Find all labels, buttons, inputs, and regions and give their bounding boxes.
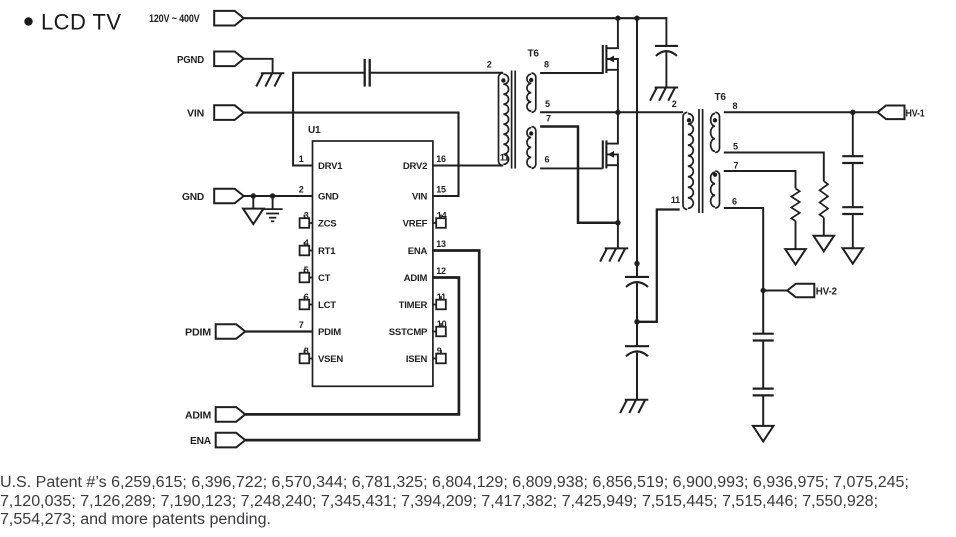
wire top rail bbox=[244, 17, 667, 19]
capacitor HV1 filter upper bbox=[842, 155, 863, 157]
wire GND to pin2 bbox=[244, 195, 313, 197]
wire ADIM loop to pin12 bbox=[245, 278, 459, 415]
svg-text:DRV1: DRV1 bbox=[318, 161, 343, 172]
svg-text:6: 6 bbox=[732, 197, 737, 207]
wire to signal ground bbox=[252, 196, 254, 209]
svg-text:11: 11 bbox=[500, 153, 509, 163]
svg-text:TIMER: TIMER bbox=[399, 300, 428, 311]
connector J6 ADIM bbox=[216, 407, 246, 422]
svg-text:5: 5 bbox=[733, 142, 738, 152]
patent notice text bbox=[0, 473, 956, 529]
svg-text:VSEN: VSEN bbox=[318, 354, 343, 365]
svg-text:PDIM: PDIM bbox=[185, 327, 211, 339]
connector J7 ENA bbox=[216, 433, 246, 448]
svg-text:13: 13 bbox=[436, 239, 446, 249]
wire pin16 DRV2 to T6a pin11 bbox=[433, 165, 503, 167]
wire T6b pin8 to HV-1 bbox=[724, 111, 878, 113]
svg-text:2: 2 bbox=[672, 99, 677, 109]
capacitor HV2 upper bbox=[753, 333, 774, 335]
node rail-drain bbox=[615, 16, 620, 21]
wire ENA loop to pin13 bbox=[245, 251, 479, 441]
wire cap to T6a pin2 bbox=[370, 72, 503, 74]
node T6a sec2 dot bbox=[529, 131, 533, 135]
resistor R-pin7 bbox=[791, 189, 799, 222]
svg-text:1: 1 bbox=[299, 154, 304, 164]
node T6a sec1 dot bbox=[529, 78, 533, 82]
ground cap branch chassis bbox=[625, 399, 649, 401]
svg-text:7: 7 bbox=[546, 114, 551, 124]
node HV-2 tap bbox=[761, 288, 766, 293]
ground R-pin5 triangle bbox=[814, 236, 835, 252]
svg-text:ISEN: ISEN bbox=[406, 354, 428, 365]
ground HV2 triangle bbox=[753, 426, 774, 442]
node cap branch bbox=[634, 261, 639, 266]
wire HV1 filter drop bbox=[852, 112, 854, 156]
node T6b sec2 dot bbox=[713, 173, 717, 177]
wire snubber to ground bbox=[665, 52, 667, 87]
svg-text:4: 4 bbox=[304, 238, 309, 248]
wire cap to ground bbox=[636, 353, 638, 400]
svg-text:GND: GND bbox=[318, 192, 339, 203]
capacitor resonant lower bbox=[625, 345, 649, 347]
wire T6b pin7 branch bbox=[724, 171, 796, 189]
transformer T6a sec upper bbox=[532, 73, 536, 112]
svg-text:8: 8 bbox=[544, 60, 549, 70]
svg-text:PDIM: PDIM bbox=[318, 327, 341, 338]
wire midpoint rail bbox=[540, 111, 683, 113]
node midpoint bbox=[615, 110, 620, 115]
wire T6a pin8 to Q1 gate bbox=[540, 72, 603, 74]
svg-text:HV-2: HV-2 bbox=[816, 287, 838, 298]
svg-text:15: 15 bbox=[436, 185, 446, 195]
svg-text:ZCS: ZCS bbox=[318, 219, 336, 230]
wire PGND to ground bbox=[244, 59, 273, 73]
wire T6b pin11 to cap node bbox=[637, 210, 680, 322]
ground Q2 source chassis bbox=[605, 247, 629, 249]
resistor R-pin5 bbox=[820, 181, 828, 217]
wire R-pin5 to ground bbox=[823, 218, 825, 236]
transistor Q2 lower NMOS bbox=[602, 140, 604, 168]
connector HV-1 bbox=[878, 106, 905, 120]
transformer T6a sec lower bbox=[532, 127, 536, 169]
wire T6a pin7 to Q2 source bbox=[540, 127, 618, 223]
wire pin1 DRV1 riser bbox=[293, 73, 364, 166]
node HV-1 tap bbox=[850, 110, 855, 115]
wire to earth ground bbox=[272, 196, 274, 209]
svg-text:5: 5 bbox=[545, 99, 550, 109]
wire rail cap branch bbox=[636, 18, 638, 277]
svg-text:5: 5 bbox=[304, 265, 309, 275]
capacitor coupling bbox=[364, 59, 366, 87]
transformer T6b sec upper bbox=[715, 112, 719, 152]
connector J2 PGND bbox=[214, 52, 244, 67]
connector J4 GND bbox=[214, 189, 244, 204]
svg-text:ADIM: ADIM bbox=[404, 273, 428, 284]
wire between HV1 caps bbox=[852, 163, 854, 207]
ground R-pin7 triangle bbox=[785, 249, 806, 265]
node T6b primary dot bbox=[687, 118, 691, 122]
wire rail to snubber cap bbox=[665, 17, 667, 46]
svg-text:T6: T6 bbox=[715, 92, 727, 103]
transformer T6b sec lower bbox=[715, 171, 719, 208]
ground snubber chassis bbox=[655, 87, 679, 89]
node T6b pin11 join bbox=[634, 319, 639, 324]
svg-text:2: 2 bbox=[487, 60, 492, 70]
svg-text:12: 12 bbox=[436, 266, 446, 276]
wire VIN to pin15 bbox=[244, 113, 459, 196]
svg-text:8: 8 bbox=[304, 346, 309, 356]
svg-text:9: 9 bbox=[437, 346, 442, 356]
svg-text:PGND: PGND bbox=[177, 54, 205, 66]
svg-text:7: 7 bbox=[299, 320, 304, 330]
wire T6b pin6 branch bbox=[724, 208, 763, 334]
wire T6b pin5 branch bbox=[724, 153, 824, 182]
svg-text:8: 8 bbox=[733, 101, 738, 111]
svg-text:3: 3 bbox=[304, 211, 309, 221]
ground PGND chassis bbox=[261, 72, 285, 74]
connector J1 120V~400V bbox=[214, 11, 244, 26]
transformer T6a core bbox=[511, 71, 513, 169]
node T6b sec1 dot bbox=[713, 118, 717, 122]
svg-text:16: 16 bbox=[436, 154, 446, 164]
ground earth bbox=[263, 208, 283, 210]
svg-text:VIN: VIN bbox=[412, 192, 428, 203]
svg-text:GND: GND bbox=[182, 191, 205, 203]
transformer T6b core bbox=[698, 109, 700, 213]
wire between caps bbox=[636, 283, 638, 346]
transistor Q1 upper NMOS bbox=[602, 45, 604, 73]
svg-text:LCD TV: LCD TV bbox=[41, 9, 122, 34]
svg-text:6: 6 bbox=[545, 155, 550, 165]
capacitor snubber bbox=[655, 45, 678, 47]
svg-text:6: 6 bbox=[304, 292, 309, 302]
connector J5 PDIM bbox=[216, 324, 246, 339]
transformer T6b primary bbox=[683, 112, 687, 209]
svg-text:DRV2: DRV2 bbox=[403, 161, 427, 172]
ground HV1 triangle bbox=[843, 248, 864, 264]
wire T6a pin6 to Q2 gate bbox=[540, 167, 603, 169]
capacitor HV1 filter lower bbox=[842, 206, 863, 208]
svg-text:U1: U1 bbox=[308, 125, 321, 136]
connector HV-2 bbox=[787, 284, 814, 298]
wire PDIM to pin7 bbox=[245, 330, 312, 332]
svg-text:ENA: ENA bbox=[190, 435, 212, 447]
svg-text:RT1: RT1 bbox=[318, 246, 336, 257]
node T6a primary dot bbox=[501, 78, 505, 82]
svg-text:ENA: ENA bbox=[408, 246, 428, 257]
op-amp U1 box bbox=[313, 141, 433, 386]
svg-text:CT: CT bbox=[318, 273, 331, 284]
node rail-capbranch bbox=[634, 16, 639, 21]
node GND-a bbox=[251, 193, 256, 198]
svg-text:T6: T6 bbox=[528, 49, 540, 60]
wire HV-2 stub bbox=[763, 290, 787, 292]
transformer T6a primary bbox=[499, 73, 503, 166]
capacitor HV2 lower bbox=[753, 388, 774, 390]
node GND-b bbox=[270, 193, 275, 198]
svg-text:120V ~ 400V: 120V ~ 400V bbox=[149, 13, 200, 25]
svg-text:11: 11 bbox=[671, 195, 680, 205]
svg-text:VIN: VIN bbox=[187, 108, 204, 120]
svg-text:SSTCMP: SSTCMP bbox=[389, 327, 428, 338]
node source-gnd bbox=[615, 220, 620, 225]
wire R-pin7 to ground bbox=[795, 221, 797, 249]
svg-text:VREF: VREF bbox=[403, 219, 428, 230]
svg-text:7: 7 bbox=[734, 161, 739, 171]
svg-text:10: 10 bbox=[437, 319, 447, 329]
svg-text:11: 11 bbox=[437, 292, 446, 302]
wire to HV2 ground bbox=[762, 395, 764, 426]
bullet bbox=[24, 17, 32, 25]
svg-text:LCT: LCT bbox=[318, 300, 336, 311]
ground signal triangle bbox=[243, 209, 263, 225]
svg-text:2: 2 bbox=[299, 185, 304, 195]
capacitor resonant upper bbox=[625, 276, 649, 278]
svg-text:14: 14 bbox=[437, 211, 447, 221]
wire to HV1 ground bbox=[852, 214, 854, 248]
svg-text:HV-1: HV-1 bbox=[906, 109, 926, 120]
connector J3 VIN bbox=[214, 105, 244, 120]
wire between HV2 caps bbox=[762, 341, 764, 389]
svg-text:ADIM: ADIM bbox=[185, 409, 211, 421]
